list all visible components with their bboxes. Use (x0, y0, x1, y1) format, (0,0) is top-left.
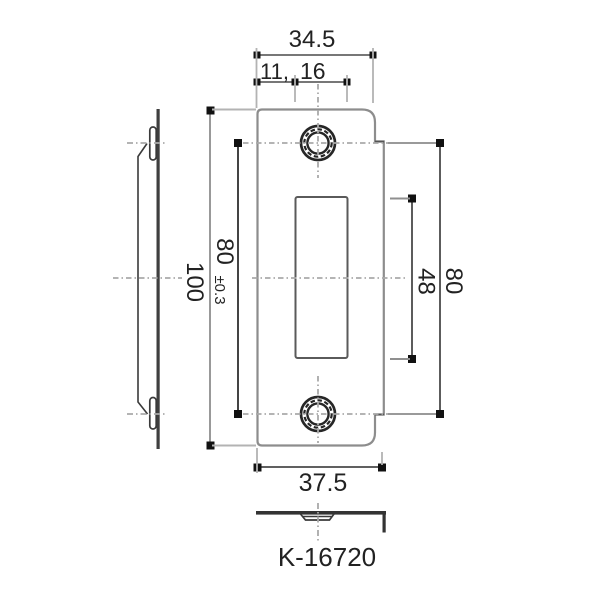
dim 11/16 line (257, 81, 347, 83)
dim 34.5 right dot (370, 52, 377, 59)
top hole vertical centerline (317, 84, 319, 178)
plate right step top dark segment (375, 141, 384, 143)
extension line plate top right corner (372, 48, 374, 103)
bottom hole vertical centerline (317, 376, 319, 443)
dim 37.5 right extension (381, 452, 383, 465)
dim 80 right bottom connector (388, 413, 438, 415)
svg-text:48: 48 (413, 268, 440, 295)
svg-text:K-16720: K-16720 (278, 542, 376, 572)
svg-text:37.5: 37.5 (299, 469, 348, 497)
dim 11/16 left dot (254, 79, 261, 86)
dim 34.5 left dot (254, 52, 261, 59)
dim 48 top connector (390, 198, 410, 200)
svg-text:80: 80 (211, 238, 238, 265)
dim 100 top connector (212, 109, 256, 111)
dim 100 top dot (207, 107, 215, 115)
dim 34.5 line (257, 54, 373, 56)
dim 80 tol top dot (234, 139, 242, 147)
extension line slot left edge top (294, 75, 296, 102)
dim 80 tol line (237, 143, 239, 414)
plate right step bottom dark segment (375, 414, 384, 416)
dim 37.5 line (257, 466, 382, 468)
dim 48 line (411, 198, 413, 359)
dim 80 tol bottom dot (234, 410, 242, 418)
side view bent lip line (138, 144, 148, 415)
svg-text:100: 100 (181, 262, 208, 302)
svg-text:±0.3: ±0.3 (211, 275, 228, 304)
dim 80 right top dot (436, 139, 444, 147)
bottom screw hole inner circle (307, 403, 328, 424)
bottom view centerline (317, 503, 319, 542)
side view bottom screw boss capsule (150, 398, 156, 430)
side view top hole centerline (127, 142, 167, 144)
side view bottom hole centerline (127, 413, 167, 415)
svg-text:11,: 11, (260, 59, 289, 84)
dim 100 bottom dot (207, 442, 215, 450)
dim 80 right top connector (388, 142, 438, 144)
top screw hole inner circle (307, 132, 328, 153)
top hole horizontal centerline (243, 142, 440, 144)
slot horizontal centerline left segment (113, 277, 182, 279)
bottom view plate bar (256, 511, 386, 515)
svg-text:34.5: 34.5 (289, 26, 336, 53)
slot horizontal centerline right segment (252, 277, 408, 279)
side view top screw boss capsule (150, 127, 156, 160)
dim 37.5 left extension (256, 448, 258, 473)
svg-text:80: 80 (440, 268, 467, 295)
latch slot rectangle (296, 197, 348, 358)
top screw hole outer circle (301, 126, 335, 160)
extension line slot right edge top (346, 75, 348, 102)
bottom screw hole dashed circle (304, 400, 331, 427)
bottom screw hole outer circle (301, 397, 335, 431)
dim 37.5 right dot (378, 464, 386, 472)
dim 11/16 middle dot (292, 79, 299, 86)
side view plate main line (157, 109, 160, 449)
dim 48 bottom dot (408, 355, 416, 363)
bottom hole horizontal centerline (243, 413, 440, 415)
extension line plate left to top dims (256, 48, 258, 108)
top screw hole dashed circle (304, 129, 331, 156)
front view plate outline (258, 110, 384, 446)
svg-text:16: 16 (300, 58, 326, 84)
dim 48 top dot (408, 195, 416, 203)
dim 48 bottom connector (390, 358, 410, 360)
dim 100 bottom connector (212, 445, 256, 447)
dim 37.5 left dot (254, 464, 262, 472)
dim 11/16 right dot (344, 79, 351, 86)
dim 80 right line (439, 143, 441, 414)
dim 80 right bottom dot (436, 410, 444, 418)
bottom view right lip hook (383, 511, 386, 533)
dim 100 line (209, 110, 211, 446)
bottom view dimple (301, 514, 335, 520)
bottom view dimple inner line (303, 516, 332, 518)
